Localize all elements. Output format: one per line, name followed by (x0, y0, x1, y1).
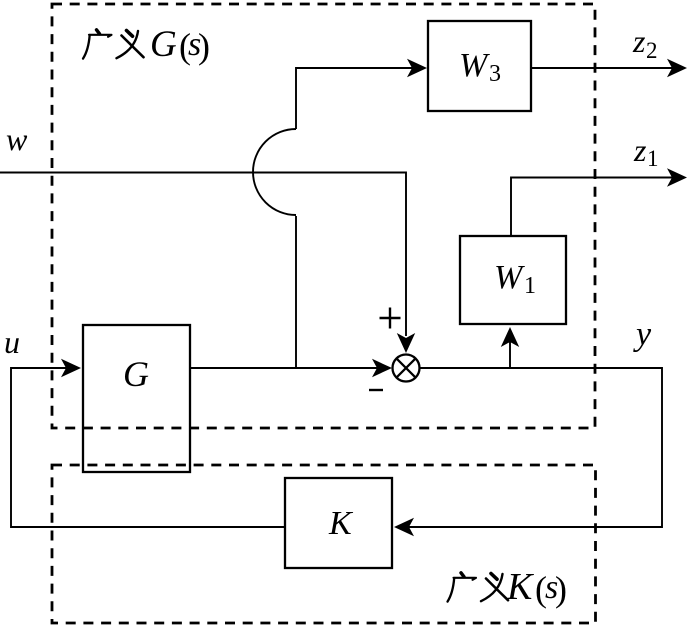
wire W1 output z1 (511, 178, 681, 237)
svg-text:1: 1 (524, 273, 536, 299)
arrowhead into G (right) (61, 359, 81, 377)
arrowhead into W1 (up) (501, 327, 519, 347)
label 义 (of 广义K(s)) (481, 574, 508, 602)
label 广 (of 广义K(s)) (448, 573, 477, 602)
arrowhead into K (left) (394, 518, 414, 536)
arrowhead into junction (down, +) (397, 333, 415, 353)
wire branch to W3 with hop over w line (295, 216, 297, 368)
arrowhead into W3 (407, 59, 427, 77)
arrowhead z1 (667, 168, 687, 186)
arrowhead into junction (right) (372, 359, 392, 377)
svg-text:z: z (632, 23, 646, 59)
svg-text:): ) (198, 26, 210, 66)
arrowhead z2 (667, 59, 687, 77)
wire K output feedback to G (11, 368, 285, 527)
svg-text:z: z (633, 132, 647, 168)
label 义 (of 广义G(s)) (117, 31, 144, 59)
minus sign (369, 389, 383, 391)
wire W3 output z2 (531, 67, 681, 69)
summing junction (393, 355, 420, 382)
svg-text:G: G (123, 354, 149, 394)
svg-text:G: G (150, 24, 177, 65)
svg-text:w: w (6, 121, 28, 157)
svg-text:y: y (633, 316, 652, 353)
svg-text:2: 2 (646, 38, 658, 63)
svg-text:3: 3 (489, 61, 501, 87)
wire junction output y, down and into K (399, 368, 662, 527)
svg-text:u: u (4, 324, 20, 360)
svg-text:W: W (459, 47, 490, 84)
plus sign (380, 308, 401, 329)
label 广 (of 广义G(s)) (83, 30, 112, 59)
block G (83, 325, 190, 472)
svg-text:K: K (328, 505, 354, 542)
svg-text:K: K (506, 566, 534, 608)
wire G output to junction (190, 367, 387, 369)
svg-text:W: W (494, 259, 525, 296)
dashed box 广义K(s) (52, 465, 596, 623)
block W1 (460, 236, 566, 324)
dashed box 广义G(s) (52, 4, 595, 428)
wire w input: horizontal then down into summing junction (0, 173, 406, 337)
block K (285, 478, 392, 568)
block W3 (428, 21, 531, 111)
svg-text:1: 1 (647, 146, 659, 171)
svg-text:): ) (555, 569, 567, 609)
hop arc (253, 129, 296, 215)
wire branch up into W1 (509, 333, 511, 368)
